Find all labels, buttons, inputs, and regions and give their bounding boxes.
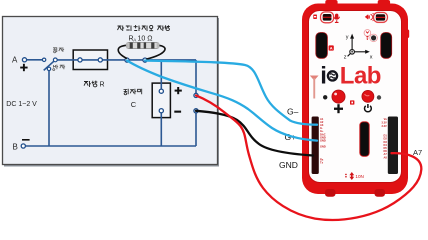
svg-text:i: i [320,63,327,90]
svg-text:3.3V: 3.3V [381,120,387,124]
device: left slot [316,33,328,59]
label: 축전기 C (pseudo-glyphs) [124,89,142,95]
capacitor polarity labels [175,87,182,94]
resistor RA body [126,42,159,48]
label: 전류측정용 저항 (pseudo-glyphs) [118,25,170,31]
device: right pin header [388,117,398,175]
cyan wire A: node1 to G+ pin [127,61,317,141]
svg-text:GND: GND [320,145,326,149]
device: plus button [332,90,345,103]
label: 저항 R (pseudo-glyphs) [84,81,97,87]
svg-text:10N: 10N [355,174,363,179]
device: right port pill [374,12,388,22]
device: right small dot [377,95,381,99]
svg-text:A8: A8 [383,155,387,159]
iOLab device body [302,0,409,197]
svg-text:Vu: Vu [384,117,388,121]
node red (to A7) [194,93,198,97]
device: power button [362,90,374,102]
wire: discharge branch [48,69,50,146]
device: force hook pin [310,76,319,99]
device: A mini square [329,45,334,50]
device: mini square between buttons [350,100,354,104]
svg-text:R: R [100,82,105,89]
label: 방전 (pseudo-glyphs) [53,65,65,71]
device: left pin header [312,117,319,175]
capacitor terminals [159,89,163,93]
wire: bottom run [23,145,196,147]
svg-text:x: x [370,55,373,61]
device: axis icon [348,38,366,56]
wire: black node down to bottom run [195,113,197,146]
svg-text:C: C [131,100,137,109]
resistor R box [73,50,107,70]
wire: A to switch [25,59,43,61]
terminal A [22,58,26,62]
device: microphone icon [334,14,340,23]
device: speaker icon [365,14,370,19]
svg-text:A7: A7 [413,148,422,157]
wire: main top run switch to right corner [55,59,196,61]
svg-text:z: z [344,54,347,60]
svg-text:B: B [13,142,18,151]
switch discharge contact [47,67,50,70]
device: left port pill [321,12,334,23]
terminal B [21,144,25,148]
svg-text:Lab: Lab [340,63,381,90]
label: 충전 (pseudo-glyphs) [53,47,64,52]
device: 10N force label [345,172,354,180]
device: center slot [360,122,369,157]
switch blade [44,60,55,70]
svg-text:GND: GND [320,139,326,143]
svg-text:DC 1~2 V: DC 1~2 V [6,101,37,108]
node1 RA left [125,58,129,62]
device: mini square icon top-left [313,15,317,20]
svg-text:A: A [12,56,18,65]
node2 RA right [143,58,147,62]
svg-text:10 Ω: 10 Ω [138,36,153,43]
wire: capacitor bottom lead [160,111,162,146]
capacitor C box [152,83,170,118]
circuit panel [3,17,220,167]
wire: right branch down to red node [195,60,197,94]
black wire: node to GND pin [196,111,313,156]
node black (to GND) [194,109,198,113]
red wire: node to A7 pin around the bottom [196,95,421,220]
resistor RA leads [118,45,127,58]
wire: capacitor top lead [160,60,162,91]
resistor R terminals [78,58,82,62]
svg-text:GND: GND [279,160,298,170]
switch pole circle [42,58,45,61]
device: bulb icon [364,30,371,37]
switch charge contact [53,58,57,62]
svg-text:G–: G– [287,106,299,116]
svg-text:3.3V: 3.3V [381,124,387,128]
device: right slot [381,33,392,59]
svg-text:A: A [133,38,136,43]
svg-text:y: y [346,35,349,41]
cyan wire B: node2 to G- pin [145,61,317,125]
svg-text:A: A [330,46,333,51]
device: left small dot [323,95,327,99]
